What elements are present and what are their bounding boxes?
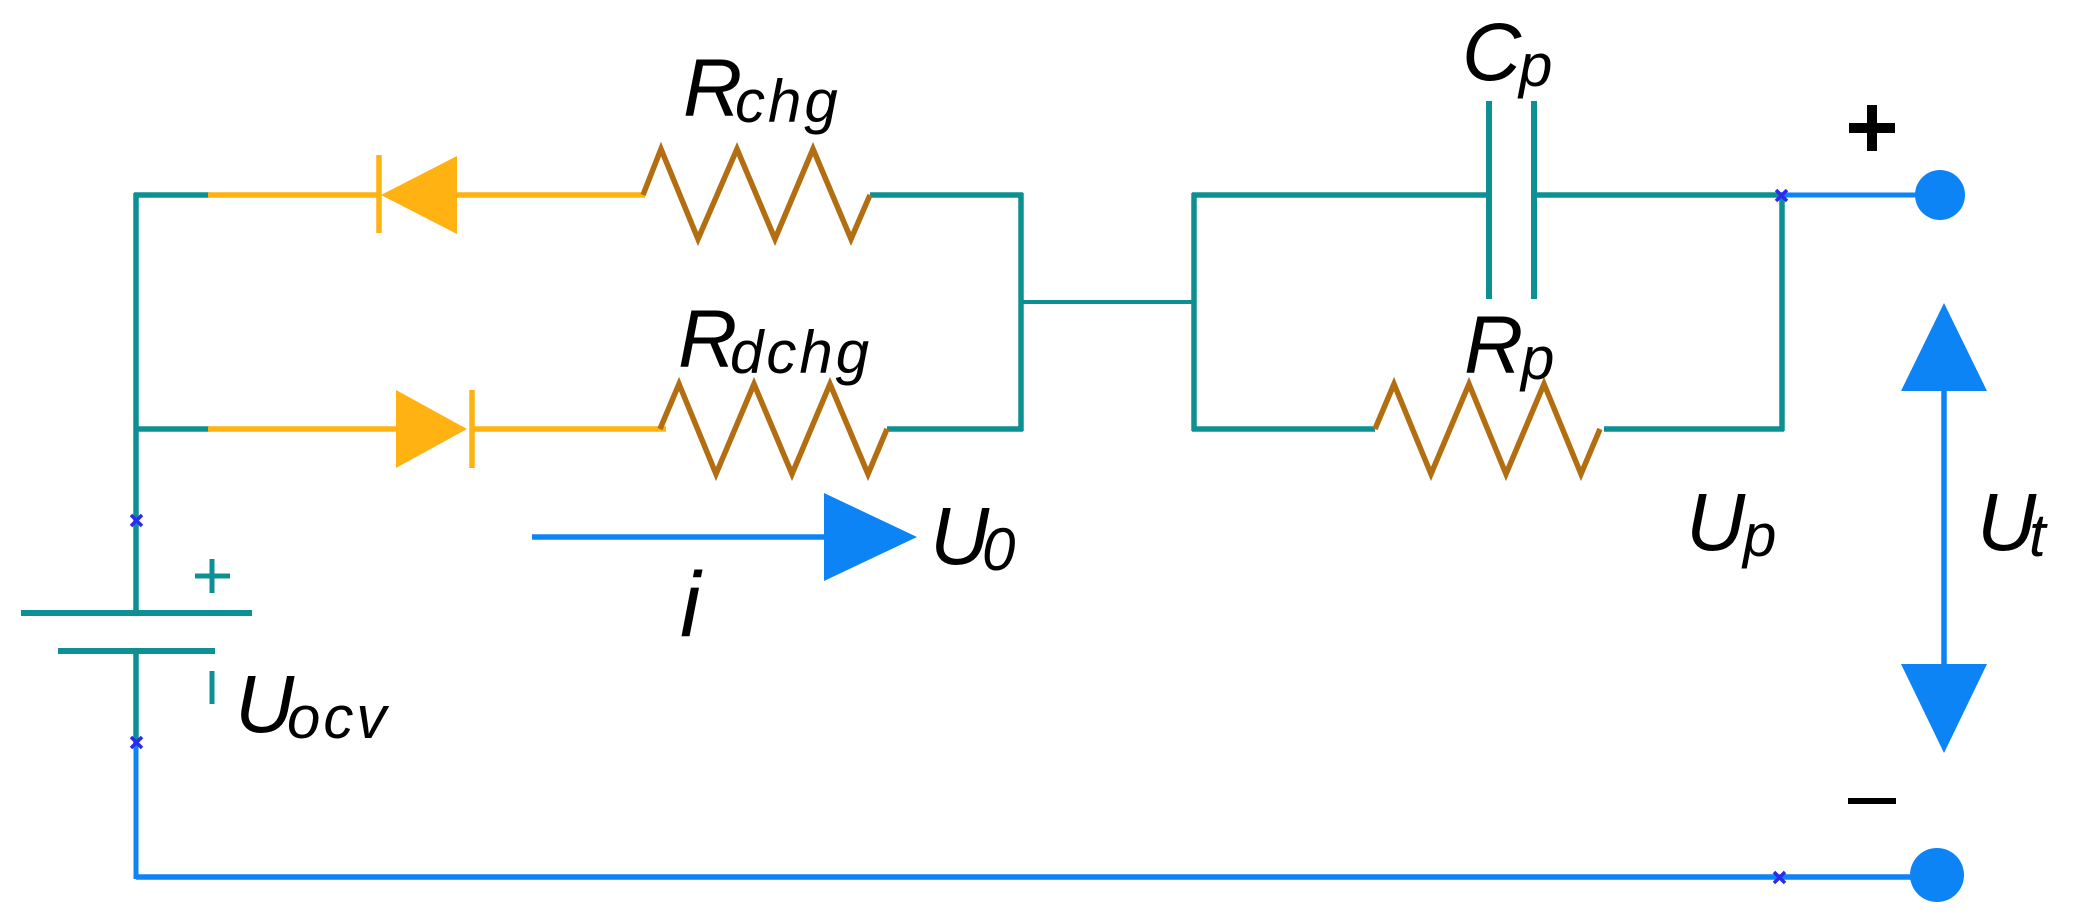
svg-text:U: U bbox=[235, 659, 295, 750]
svg-text:i: i bbox=[680, 554, 703, 656]
svg-text:R: R bbox=[1464, 300, 1523, 391]
svg-text:C: C bbox=[1462, 7, 1522, 98]
svg-text:U: U bbox=[1977, 477, 2037, 568]
svg-text:R: R bbox=[678, 294, 737, 385]
svg-text:dchg: dchg bbox=[730, 319, 872, 386]
svg-text:p: p bbox=[1517, 32, 1555, 99]
svg-text:R: R bbox=[683, 43, 742, 134]
svg-text:t: t bbox=[2029, 502, 2049, 569]
svg-text:p: p bbox=[1741, 502, 1779, 569]
svg-text:U: U bbox=[930, 491, 990, 582]
svg-text:p: p bbox=[1519, 325, 1557, 392]
svg-text:U: U bbox=[1686, 477, 1746, 568]
svg-text:ocv: ocv bbox=[287, 684, 389, 751]
svg-text:chg: chg bbox=[735, 68, 841, 135]
svg-text:0: 0 bbox=[982, 516, 1018, 583]
